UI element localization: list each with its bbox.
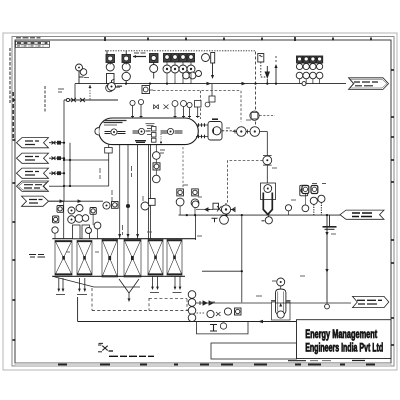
- heat exchanger E2: [77, 241, 92, 276]
- inline valve with flanges mid-right: [263, 156, 272, 166]
- dashed taps vessel to level instruments: [182, 147, 184, 187]
- vessel left nozzle cap: [95, 128, 99, 136]
- downcomer arrowheads into exchanger header: [118, 234, 139, 238]
- title block box: [288, 320, 391, 361]
- dashed branch x=149: [148, 298, 150, 311]
- valve cluster G positioner circles row1: [296, 63, 322, 69]
- junction dot: [241, 270, 243, 272]
- dashed branch to LC: [200, 91, 202, 119]
- dashed drop to pump P1: [240, 91, 242, 122]
- instrument signal dashed line y=90.7: [153, 90, 241, 92]
- make-up inlet flag (FW water): [340, 210, 384, 219]
- dashed signal from valve left then down: [228, 160, 263, 203]
- border tick marks left: [13, 100, 16, 340]
- vessel text UP BY TOP: [146, 124, 155, 126]
- border centering tick marks top: [105, 37, 371, 41]
- dosing header line y=201: [49, 200, 104, 202]
- vessel top small instruments row: [130, 99, 210, 118]
- vessel internal spray R: [161, 128, 183, 134]
- secondary bus x=70: [69, 143, 71, 187]
- header junction dots: [109, 83, 277, 85]
- dashed instrument enclosure top-middle: [255, 52, 257, 126]
- gate valves on y=100 manifold: [66, 98, 85, 102]
- drop from P2 to inline valve: [266, 132, 268, 156]
- solenoid S station: [258, 54, 270, 84]
- revision table text dashes: [17, 42, 48, 44]
- dotted branch x=90: [89, 85, 91, 100]
- vessel name label strip: [104, 121, 127, 126]
- dosing pot tanks: [73, 225, 90, 239]
- flag F5 line: [49, 200, 65, 202]
- vessel right nozzle taps to LC: [196, 123, 208, 138]
- vessel internal spray L: [105, 129, 126, 135]
- inner border frame: [15, 40, 391, 363]
- drawing number text above table: [16, 37, 41, 39]
- drain stub with bar on water line: [323, 215, 337, 229]
- instruments on right of water line: [302, 186, 325, 216]
- make-up water line y=215: [179, 214, 341, 216]
- dashed branch y=298.7: [149, 299, 187, 311]
- instrument pair H1 above water line: [176, 189, 184, 215]
- feed line to exchanger train: [63, 201, 65, 239]
- dosing pump instruments above E1/E2: [52, 205, 101, 239]
- bottom main line y=321.5: [78, 321, 297, 323]
- valves on blowdown line left: [200, 301, 213, 305]
- outer border frame: [12, 37, 394, 367]
- flag F2 outlet valve: [49, 157, 64, 160]
- heat exchanger E3: [102, 240, 118, 278]
- line y=100 left manifold: [64, 99, 118, 101]
- valve on downcomer below vessel: [105, 148, 113, 154]
- note text M.P.O (left): [29, 255, 45, 258]
- heat exchanger E4: [124, 240, 141, 278]
- revision table (top-left): [16, 38, 50, 48]
- small line y=209: [196, 208, 210, 210]
- control valve P2: [250, 127, 267, 137]
- recirculation loop below bottom line: [197, 322, 249, 334]
- valve cluster G (top right): 4 control valves: [297, 56, 323, 63]
- flag F3 outlet valve: [49, 172, 64, 175]
- left distribution bus x=64: [63, 100, 65, 201]
- recirculation line y=271: [202, 270, 242, 272]
- off-page flag F3 (left): [17, 168, 49, 178]
- pump discharge eye below line: [262, 214, 273, 224]
- instrument pair H2 above water line: [191, 189, 199, 215]
- gauge right of pump: [285, 205, 291, 215]
- level gauge on blowdown vessel: [272, 278, 285, 289]
- heat exchanger E5: [148, 240, 163, 276]
- flange pair on header: [302, 82, 306, 86]
- funnel drain below E3/E4: [119, 279, 139, 302]
- drain labels below exchangers: [56, 293, 182, 295]
- instruments above exchanger E3/E4: [86, 199, 156, 234]
- vertical x=241.8 from water line to blowdown: [241, 215, 243, 302]
- bottom border gray band: [15, 363, 391, 366]
- title block bottom row text: [288, 360, 365, 362]
- transmitter box above vessel: [142, 86, 153, 94]
- dashed continuation of top header: [225, 50, 256, 52]
- pipe size labels along downcomers: [100, 166, 143, 235]
- small instrument square right of pump: [300, 185, 308, 196]
- bottom-left note text: [109, 355, 154, 357]
- condensate pump stack (4 circles): [188, 291, 196, 322]
- border tick marks right: [391, 70, 394, 345]
- off-page flag top-right: cooling tower feed water: [349, 78, 389, 90]
- safety valve PSV-1: [76, 64, 87, 84]
- level instrument with flag on header left: [108, 79, 123, 91]
- flange circle on blowdown line right: [325, 304, 330, 309]
- vent stub with up arrow x=276: [274, 56, 277, 84]
- short vent from relief header x=212: [209, 84, 215, 102]
- drain riser to bottom line: [77, 297, 79, 322]
- dashed drain header y=310.5: [92, 310, 188, 312]
- margin note column x45: [44, 86, 46, 112]
- junction dots left bus: [63, 142, 71, 188]
- exchanger outlet header bottom: [52, 275, 185, 277]
- vessel text STL BLDG: [135, 141, 146, 143]
- dashed level signal LC to valves: [222, 130, 237, 132]
- vessel level dotted line: [160, 134, 162, 144]
- off-page flag F4 live steam (left, double outline): [17, 181, 49, 191]
- blowdown line into flag: [275, 302, 351, 304]
- drain arrows below exchangers: [57, 276, 181, 292]
- PRV stack A1: control valve: [106, 51, 115, 84]
- flag F4 line: [49, 185, 64, 187]
- valve cluster G circles row2: [296, 72, 323, 83]
- off-page flag F1 steam inlet (left): [17, 138, 49, 148]
- vessel internal tray boxes: [147, 127, 156, 143]
- off-page flag F5 chemical dosing (left, points right): [22, 196, 49, 206]
- junction dots on water line: [186, 214, 328, 216]
- circle on left of line y209: [192, 201, 199, 208]
- left margin vertical notes text: [10, 48, 13, 138]
- PSV relief header y=83.6: [75, 83, 346, 85]
- arrow on bottom line: [258, 320, 263, 324]
- vessel bottom downcomer pipes: [109, 145, 151, 239]
- PSV header left drop: [74, 84, 76, 100]
- instrument column x=156 (vessel right bottom): [153, 145, 161, 183]
- valve row C: 4 control valves with actuators: [164, 54, 195, 63]
- border tick marks bottom (black segments on band): [58, 364, 375, 366]
- vessel internal spray M: [133, 128, 151, 134]
- misc tiny labels: [58, 78, 336, 303]
- drop from water line to exchanger right end: [195, 215, 197, 240]
- valve row C droppers to relief header: [167, 62, 191, 84]
- header flow arrows: [207, 82, 247, 86]
- PRV stack A2: control valve: [122, 51, 131, 84]
- exchanger inlet header top: [52, 238, 195, 240]
- instrument D circle: [202, 53, 215, 80]
- blowdown line y=303: [196, 302, 275, 304]
- valve row C: positioner circles: [163, 65, 202, 79]
- heat exchanger E1: [55, 241, 72, 276]
- main steam header (top, y=50.5): [105, 50, 225, 52]
- svg-text:Engineers India Pvt Ltd: Engineers India Pvt Ltd: [305, 342, 383, 354]
- heat exchanger E6: [167, 240, 182, 276]
- cluster on dosing line y=313: [197, 308, 242, 318]
- instrument B box + label "4 F.W PUMPS": [133, 53, 158, 79]
- control valve P1: [233, 127, 251, 137]
- notes box above bottom border: [211, 343, 297, 359]
- blowdown vessel (vertical capsule with box): [271, 289, 291, 320]
- BFW pump cluster on water line: [205, 137, 235, 224]
- boiler feed vertical line x=327: [325, 215, 328, 303]
- LP heater return loop lines: [64, 160, 109, 186]
- blowdown outlet flag (bottom right): [353, 296, 389, 307]
- off-page flag F2 (left): [17, 153, 49, 163]
- condensate drain slope line: [52, 276, 140, 287]
- dashed drain signal left: [91, 288, 93, 311]
- flag F1 outlet valve: [49, 141, 64, 144]
- gauge below A1: [106, 84, 120, 92]
- deaerator vessel shell: [99, 118, 199, 145]
- bottom-left drain valve: [98, 343, 113, 351]
- pump unit in box (right mid): [261, 183, 276, 215]
- svg-text:Energy Management: Energy Management: [305, 329, 377, 341]
- vessel top nozzle flanges: [131, 116, 200, 118]
- line valve to pump unit: [266, 165, 268, 184]
- level controller LC box: [208, 119, 222, 140]
- instrument square-circle above P2: [250, 111, 275, 120]
